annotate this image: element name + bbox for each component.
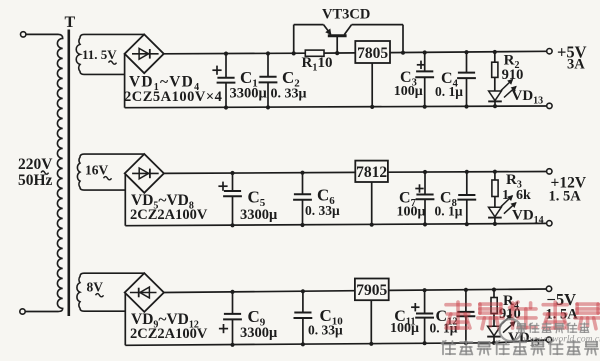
svg-text:7812: 7812 bbox=[356, 164, 387, 181]
svg-text:0. 33μ: 0. 33μ bbox=[305, 203, 340, 218]
svg-text:0. 1μ: 0. 1μ bbox=[435, 84, 463, 99]
svg-text:1. 5A: 1. 5A bbox=[549, 189, 582, 205]
svg-text:1. 6k: 1. 6k bbox=[502, 188, 531, 203]
svg-text:0. 33μ: 0. 33μ bbox=[271, 87, 307, 102]
svg-text:100μ: 100μ bbox=[390, 321, 419, 336]
svg-text:T: T bbox=[65, 14, 76, 31]
svg-text:2CZ5A100V×4: 2CZ5A100V×4 bbox=[124, 89, 222, 105]
svg-text:910: 910 bbox=[502, 67, 524, 83]
svg-text:0. 33μ: 0. 33μ bbox=[308, 323, 343, 338]
svg-text:7805: 7805 bbox=[357, 45, 388, 62]
svg-text:3A: 3A bbox=[567, 57, 585, 73]
svg-text:100μ: 100μ bbox=[394, 84, 423, 99]
svg-text:8V: 8V bbox=[87, 280, 104, 295]
svg-text:7905: 7905 bbox=[356, 282, 387, 299]
svg-text:3300μ: 3300μ bbox=[230, 86, 268, 102]
svg-text:3300μ: 3300μ bbox=[240, 325, 278, 341]
svg-text:www.eeworld.com.cn: www.eeworld.com.cn bbox=[523, 335, 600, 345]
svg-text:0. 1μ: 0. 1μ bbox=[435, 204, 463, 219]
svg-text:10: 10 bbox=[318, 55, 333, 71]
svg-text:3300μ: 3300μ bbox=[240, 207, 278, 223]
svg-text:VT3CD: VT3CD bbox=[322, 7, 370, 23]
svg-text:16V: 16V bbox=[85, 163, 109, 178]
svg-text:2CZ2A100V: 2CZ2A100V bbox=[130, 326, 208, 342]
svg-text:220V: 220V bbox=[18, 156, 53, 173]
svg-text:100μ: 100μ bbox=[397, 205, 426, 220]
svg-text:11. 5V: 11. 5V bbox=[82, 47, 117, 62]
svg-text:50Hz: 50Hz bbox=[18, 172, 53, 189]
svg-text:2CZ2A100V: 2CZ2A100V bbox=[130, 207, 208, 223]
